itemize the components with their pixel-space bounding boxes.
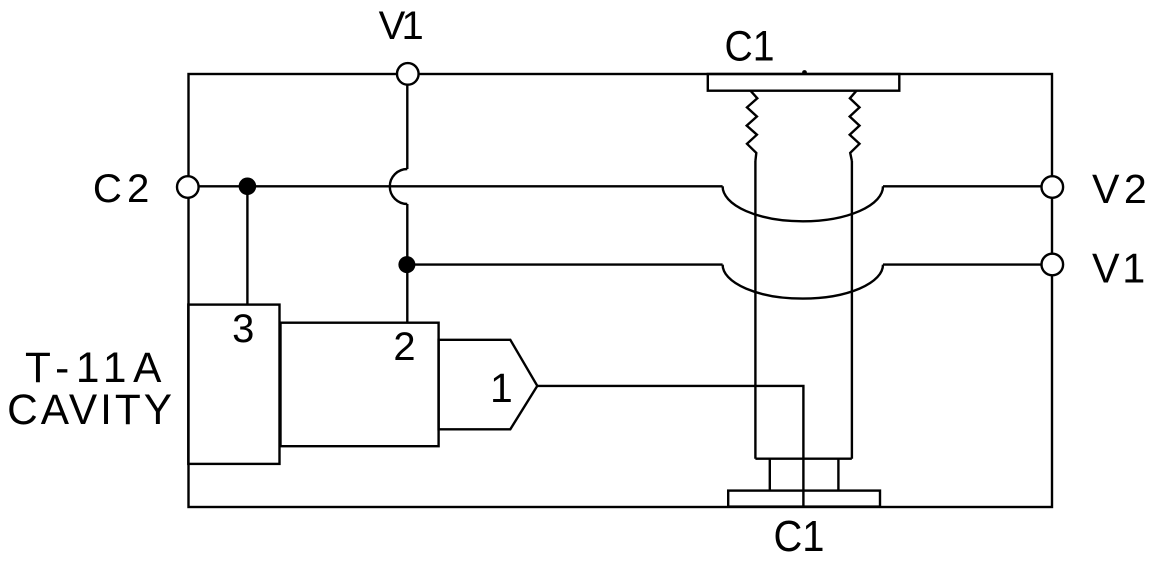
svg-text:V1: V1	[1092, 245, 1148, 291]
svg-text:C2: C2	[93, 166, 155, 211]
svg-text:C1: C1	[774, 512, 825, 561]
svg-text:V2: V2	[1092, 166, 1151, 212]
svg-text:T-11A: T-11A	[25, 344, 168, 391]
svg-text:V1: V1	[379, 4, 423, 48]
svg-text:2: 2	[393, 325, 415, 369]
svg-text:3: 3	[232, 307, 254, 351]
svg-text:CAVITY: CAVITY	[7, 386, 175, 433]
svg-text:C1: C1	[725, 23, 775, 71]
svg-text:1: 1	[490, 365, 513, 411]
